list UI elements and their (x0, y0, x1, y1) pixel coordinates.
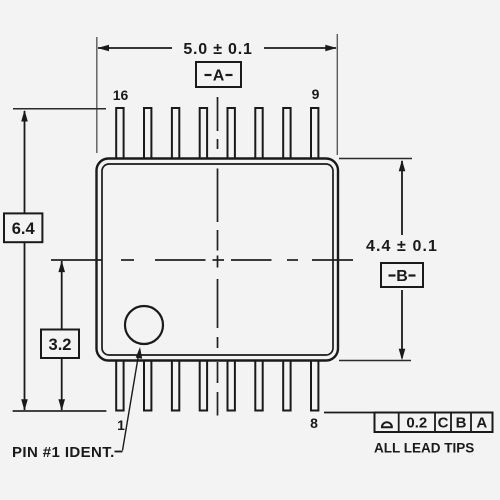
arrowhead right of 5.0 dim (325, 45, 337, 52)
svg-text:0.2: 0.2 (406, 415, 427, 432)
pin 15 (144, 108, 151, 160)
arrowhead bottom of 3.2 dim (58, 399, 65, 411)
pin 3 (172, 359, 179, 411)
datum A box (196, 62, 241, 87)
svg-text:5.0 ± 0.1: 5.0 ± 0.1 (183, 41, 252, 58)
arrowhead top of 3.2 dim (58, 261, 65, 273)
dimension 6.4 value box (4, 213, 42, 242)
pin 4 (200, 359, 207, 411)
pin 8 (311, 359, 318, 411)
extension line left for 5.0 dim (96, 37, 98, 153)
pin 6 (255, 359, 262, 411)
datum A dash right (226, 74, 233, 76)
datum B dash left (389, 274, 396, 276)
pin 12 (228, 108, 235, 160)
pin 16 (116, 108, 123, 160)
svg-text:B: B (456, 415, 467, 432)
pin 14 (172, 108, 179, 160)
pin 11 (255, 108, 262, 160)
feature control frame divider 3 (450, 413, 452, 433)
arrowhead top of 6.4 dim (21, 110, 28, 122)
vertical centerline (217, 97, 219, 416)
dimension line 6.4 lower segment (24, 242, 26, 410)
datum A dash left (205, 74, 212, 76)
package body outer outline (97, 159, 339, 361)
pin 2 (144, 359, 151, 411)
extension line right for 5.0 dim (336, 34, 338, 155)
svg-text:A: A (476, 415, 487, 432)
wire: top row pins group (pins 16..9) (116, 108, 318, 160)
svg-text:A: A (213, 68, 225, 85)
dimension line 3.2 upper segment (61, 261, 63, 330)
wire: bottom row pins group (pins 1..8) (116, 359, 318, 411)
profile of surface symbol (381, 422, 393, 427)
leader dash after note (115, 451, 123, 453)
datum B box (381, 263, 423, 287)
leader arrowhead at circle (136, 347, 143, 359)
leader line to pin 1 circle (123, 352, 140, 451)
svg-text:9: 9 (312, 86, 320, 102)
pin 7 (283, 359, 290, 411)
arrowhead left of 5.0 dim (98, 45, 110, 52)
extension tick top for 6.4 dim (13, 108, 106, 110)
svg-text:1: 1 (117, 417, 125, 433)
svg-text:PIN #1 IDENT.: PIN #1 IDENT. (12, 444, 115, 461)
dimension line 4.4 lower segment (401, 290, 403, 358)
pin 9 (311, 108, 318, 160)
pin 1 (116, 359, 123, 411)
feature control frame divider 4 (470, 413, 472, 433)
arrowhead bottom of 4.4 dim (399, 349, 406, 361)
dimension line 5.0 left segment (98, 47, 172, 49)
dimension line 4.4 upper segment (401, 161, 403, 235)
svg-text:ALL LEAD TIPS: ALL LEAD TIPS (374, 441, 474, 456)
pin 10 (283, 108, 290, 160)
horizontal centerline (51, 259, 353, 261)
package body inner outline (102, 164, 333, 355)
pin 5 (228, 359, 235, 411)
pin 1 identifier circle (125, 306, 163, 344)
svg-text:8: 8 (310, 415, 318, 431)
extension tick bottom at lead tips (left) (13, 410, 107, 412)
dimension line 5.0 right segment (264, 47, 336, 49)
feature control frame divider 2 (434, 413, 436, 433)
svg-text:B: B (396, 268, 408, 285)
dimension 3.2 value box (41, 330, 79, 359)
pin 13 (200, 108, 207, 160)
svg-text:4.4 ± 0.1: 4.4 ± 0.1 (366, 238, 438, 255)
datum B dash right (409, 274, 416, 276)
lead tips datum line (bottom right) (324, 412, 376, 414)
svg-text:3.2: 3.2 (49, 336, 72, 354)
dimension line 6.4 upper segment (24, 111, 26, 213)
extension tick bottom for 4.4 dim (339, 360, 411, 362)
svg-text:C: C (438, 415, 449, 432)
svg-text:6.4: 6.4 (12, 220, 36, 238)
arrowhead top of 4.4 dim (399, 160, 406, 172)
dimension line 3.2 lower segment (61, 358, 63, 410)
svg-text:16: 16 (113, 87, 129, 103)
arrowhead bottom of 6.4 dim (21, 399, 28, 411)
extension tick top for 4.4 dim (339, 158, 412, 160)
feature control frame outer box (375, 413, 493, 433)
feature control frame divider 1 (398, 413, 400, 433)
